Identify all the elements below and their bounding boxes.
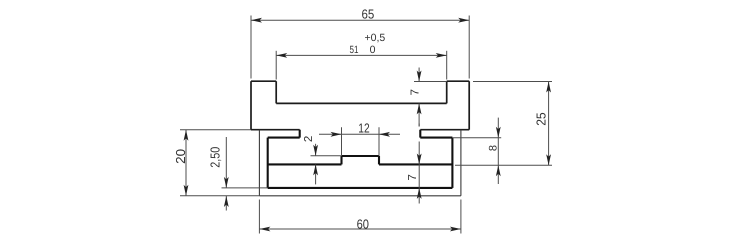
svg-text:2: 2 — [303, 136, 315, 142]
svg-text:51: 51 — [350, 44, 359, 56]
svg-text:25: 25 — [534, 112, 549, 125]
svg-text:20: 20 — [173, 149, 188, 164]
svg-text:+0,5: +0,5 — [365, 32, 386, 44]
svg-text:0: 0 — [370, 44, 376, 56]
svg-text:8: 8 — [487, 145, 499, 151]
svg-text:2,50: 2,50 — [208, 147, 223, 168]
svg-text:7: 7 — [407, 174, 419, 180]
svg-text:7: 7 — [409, 89, 421, 95]
svg-text:60: 60 — [357, 217, 369, 232]
svg-text:12: 12 — [358, 121, 369, 136]
svg-text:65: 65 — [362, 7, 375, 22]
